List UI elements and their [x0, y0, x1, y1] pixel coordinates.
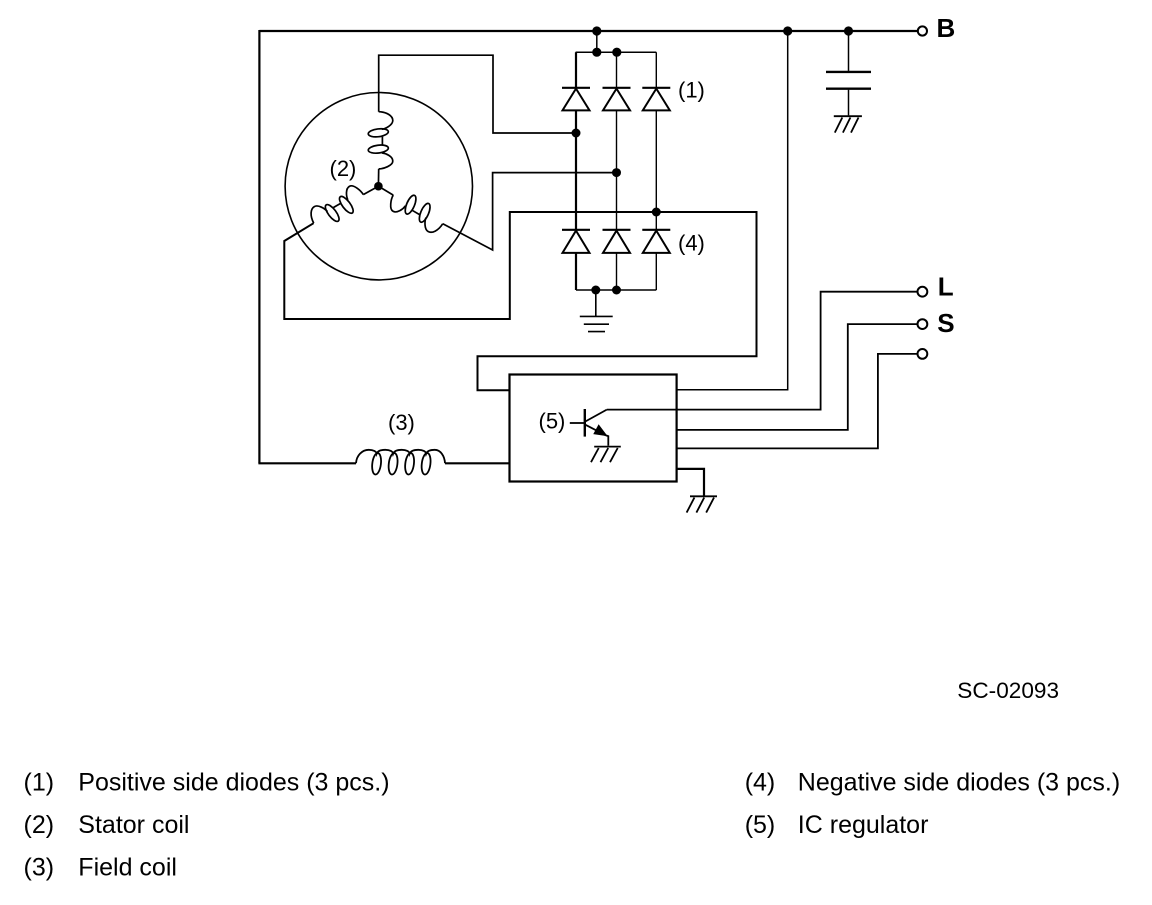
capacitor C1 lead upper	[848, 31, 850, 71]
svg-text:Field coil: Field coil	[78, 854, 177, 882]
node dot bottom bus ground	[591, 286, 600, 295]
svg-text:(1): (1)	[678, 78, 705, 103]
wire collector to terminal L	[607, 292, 917, 410]
svg-text:Stator coil: Stator coil	[78, 811, 189, 839]
diode column 3 vertical	[655, 52, 657, 290]
stator coil phase V (lower right)	[371, 177, 448, 236]
node dot phase V junction	[612, 168, 621, 177]
wire diode bridge feed from B rail	[596, 31, 598, 52]
diode D3 positive (col3 top)	[642, 88, 670, 111]
wire phase W lead to diode column 3	[284, 212, 656, 319]
svg-text:(5): (5)	[539, 409, 566, 434]
terminal L circle	[918, 287, 928, 297]
node dot phase U junction	[572, 129, 581, 138]
svg-text:(5): (5)	[745, 811, 776, 839]
stator coil phase W (lower left)	[307, 174, 384, 233]
node dot diode top bus right	[612, 48, 621, 57]
capacitor C1 plates	[826, 71, 871, 73]
svg-text:B: B	[937, 13, 956, 43]
wire diode top bus	[576, 51, 657, 53]
capacitor C1 lead lower	[848, 90, 850, 116]
wire diode bottom bus	[576, 289, 656, 291]
transistor Q1 emitter stroke	[585, 425, 606, 436]
stator coil phase U (top)	[368, 112, 393, 187]
wire phase V lead to diode column 2	[443, 173, 617, 250]
terminal IG circle	[918, 349, 928, 359]
diode D1 positive (col1 top)	[562, 88, 590, 111]
diode D6 negative (col3 bottom)	[642, 230, 670, 253]
svg-text:L: L	[938, 271, 954, 301]
stator circle (2)	[285, 93, 472, 280]
ground chassis symbol at emitter	[591, 447, 621, 463]
svg-text:IC regulator: IC regulator	[798, 811, 929, 839]
diode D4 negative (col1 bottom)	[562, 230, 590, 253]
transistor Q1 collector stroke	[585, 410, 607, 422]
node dot bottom bus col2	[612, 286, 621, 295]
diode column 2 vertical	[616, 52, 618, 290]
svg-text:SC-02093: SC-02093	[957, 678, 1059, 703]
wire B feed down to regulator	[677, 31, 788, 390]
svg-text:(4): (4)	[745, 769, 776, 797]
node dot B rail / bridge feed	[592, 26, 601, 35]
transistor Q1 emitter arrowhead	[594, 425, 606, 435]
IC regulator box U1 (5)	[510, 375, 677, 482]
svg-text:(2): (2)	[330, 156, 357, 181]
svg-text:(4): (4)	[678, 231, 705, 256]
wire field coil left lead	[258, 462, 356, 464]
svg-text:S: S	[937, 308, 954, 338]
svg-text:Positive side diodes (3 pcs.): Positive side diodes (3 pcs.)	[78, 769, 389, 797]
ground chassis symbol under capacitor	[834, 116, 862, 132]
node dot phase W junction	[652, 208, 661, 217]
ground chassis symbol below regulator	[687, 496, 717, 512]
ground earth symbol below bridge	[580, 290, 613, 332]
wire regulator case ground lead	[677, 469, 704, 496]
transistor Q1 base bar	[584, 409, 586, 437]
terminal B circle	[918, 26, 927, 35]
svg-text:Negative side diodes (3 pcs.): Negative side diodes (3 pcs.)	[798, 769, 1120, 797]
diode D5 negative (col2 bottom)	[603, 230, 631, 253]
wire phase U lead to diode column 1	[379, 55, 576, 133]
node stator neutral dot	[374, 182, 383, 191]
wire regulator to terminal S	[677, 324, 918, 430]
diode column 1 vertical	[575, 52, 577, 290]
svg-text:(1): (1)	[24, 769, 55, 797]
transistor Q1 base lead	[570, 422, 585, 424]
svg-text:(3): (3)	[24, 854, 55, 882]
svg-text:(3): (3)	[388, 410, 415, 435]
svg-text:(2): (2)	[24, 811, 55, 839]
wire field coil right lead	[445, 462, 510, 464]
node dot B rail / regulator feed	[783, 26, 792, 35]
wire sense line from phase W node to regulator	[478, 212, 757, 390]
terminal S circle	[918, 319, 928, 329]
inductor L field coil (3)	[356, 450, 445, 475]
wire top bus B rail	[259, 30, 917, 32]
transistor Q1 emitter to ground	[606, 435, 608, 445]
diode D2 positive (col2 top)	[603, 88, 631, 111]
wire outer left edge	[258, 30, 260, 463]
node dot diode top bus left	[592, 48, 601, 57]
node dot B rail / capacitor	[844, 26, 853, 35]
wire regulator to lower right terminal	[677, 354, 918, 449]
